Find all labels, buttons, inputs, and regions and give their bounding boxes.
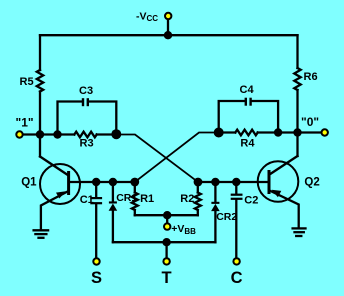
capacitor C2 (235, 182, 237, 194)
svg-text:"1": "1" (16, 115, 34, 129)
diode CR2 symbol (211, 202, 219, 204)
capacitor C3 plates (82, 98, 84, 106)
wire right vertical to Q2 collector (296, 90, 298, 156)
wire left vertical upper (39, 35, 41, 70)
wire node 0 line (219, 131, 236, 133)
svg-text:R2: R2 (180, 193, 194, 205)
transistor Q2 (258, 161, 299, 202)
node node 0/right vertical (293, 128, 301, 136)
-Vcc terminal (165, 13, 171, 19)
+VBB terminal (164, 223, 170, 229)
C input terminal (233, 258, 239, 264)
svg-text:"0": "0" (301, 115, 319, 129)
node node C4 right (274, 128, 282, 136)
resistor R5 (37, 70, 43, 92)
diode CR1 (112, 182, 114, 201)
svg-text:C: C (231, 269, 243, 287)
diode CR1 symbol (109, 201, 117, 203)
resistor R3 (74, 132, 96, 138)
wire node 1 line right (97, 133, 117, 135)
capacitor C2 plates (231, 194, 243, 196)
node node C4 left (big) (214, 128, 224, 138)
ground Q2 emitter (293, 227, 306, 229)
svg-text:R4: R4 (240, 137, 255, 149)
svg-text:R6: R6 (304, 71, 318, 83)
wire C4 loop (219, 101, 245, 133)
svg-text:R3: R3 (80, 137, 94, 149)
node node C2 tap (232, 178, 240, 186)
svg-text:R1: R1 (140, 193, 154, 205)
wire Q1 base node (70, 181, 135, 183)
diode CR2 (214, 182, 216, 202)
svg-text:CR1: CR1 (116, 192, 137, 204)
wire node 1 line (20, 133, 75, 135)
node node R2 tap (194, 178, 203, 187)
"0" output terminal (322, 129, 328, 135)
capacitor C1 plates (90, 197, 102, 199)
wire top bus (40, 34, 298, 36)
capacitor C1 (95, 182, 97, 197)
svg-text:CR2: CR2 (216, 211, 237, 223)
wire T bus (113, 241, 215, 243)
node node 1/left vertical (36, 130, 44, 138)
svg-text:C4: C4 (240, 84, 255, 96)
resistor R1 (134, 182, 136, 193)
resistor R6 (294, 68, 300, 90)
node node CR2 tap (211, 178, 219, 186)
wire -Vcc stub (167, 16, 169, 35)
resistor R2 (197, 182, 199, 193)
transistor Q2 emitter arrow (272, 190, 282, 197)
node node C3 right (big) (111, 129, 121, 139)
svg-text:C1: C1 (80, 194, 94, 206)
transistor Q1 (40, 164, 80, 204)
node node R1-R2 junction (163, 211, 171, 219)
wire left vertical to Q1 collector (39, 92, 41, 157)
wire cross-couple D2 (135, 133, 219, 183)
svg-text:C2: C2 (244, 194, 258, 206)
node node R1 tap (130, 178, 139, 187)
wire node 0 line right (258, 131, 321, 133)
resistor R4 (235, 130, 257, 136)
wire Q2 base node (198, 181, 268, 183)
node node CR1 tap (109, 178, 117, 186)
wire cross-couple D1 (116, 135, 198, 183)
node node C1 tap (92, 178, 100, 186)
svg-text:Q2: Q2 (304, 176, 319, 188)
wire right vertical upper (296, 35, 298, 68)
wire VBB bar (135, 214, 198, 216)
node node T junction (162, 238, 170, 246)
svg-text:T: T (162, 269, 172, 287)
svg-text:C3: C3 (79, 85, 93, 97)
T input terminal (163, 258, 169, 264)
svg-text:Q1: Q1 (21, 176, 37, 188)
transistor Q1 emitter arrow (56, 191, 66, 198)
svg-text:R5: R5 (20, 76, 34, 88)
S input terminal (93, 258, 99, 264)
node node -Vcc/bus (164, 31, 172, 39)
wire C3 loop (58, 102, 82, 135)
capacitor C4 plates (245, 98, 247, 106)
ground Q1 emitter (34, 229, 49, 231)
"1" output terminal (16, 131, 22, 137)
node node C3 left (53, 130, 61, 138)
svg-text:S: S (91, 269, 102, 287)
